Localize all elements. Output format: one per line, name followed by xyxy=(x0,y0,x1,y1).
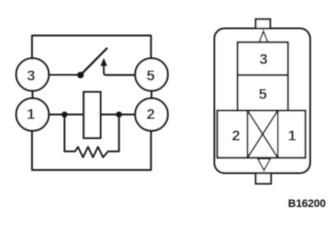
svg-text:3: 3 xyxy=(259,51,267,68)
svg-text:5: 5 xyxy=(259,86,267,103)
relay coil rectangle xyxy=(84,92,101,138)
terminal circle 1 xyxy=(16,98,49,131)
switch pivot junction dot xyxy=(77,72,84,79)
switch blade xyxy=(81,48,107,75)
svg-text:3: 3 xyxy=(27,67,35,84)
switch fixed contact arrow stem and wire to terminal 5 xyxy=(104,64,136,76)
wire stub terminal 3 to terminal 1 xyxy=(32,90,34,99)
connector keying cell with X xyxy=(248,111,278,158)
connector bottom cavity row xyxy=(217,111,305,158)
terminal circle 2 xyxy=(135,98,168,131)
connector cavity box terminal 3 xyxy=(238,42,289,75)
connector cavity box terminal 5 xyxy=(238,75,289,110)
svg-text:1: 1 xyxy=(288,127,296,144)
wire top loop between terminal 3 and terminal 5 xyxy=(32,36,151,60)
wire bottom loop between terminal 1 and terminal 2 xyxy=(32,130,151,170)
connector top index triangle xyxy=(259,31,268,43)
junction dot left of coil xyxy=(62,112,68,118)
svg-text:1: 1 xyxy=(27,106,35,123)
switch fixed contact arrowhead xyxy=(101,59,107,66)
resistor branch wires and zigzag resistor xyxy=(65,115,120,158)
connector bottom index triangle xyxy=(258,159,271,171)
svg-text:2: 2 xyxy=(232,127,240,144)
svg-text:2: 2 xyxy=(147,106,155,123)
connector top mounting tab xyxy=(256,19,271,28)
junction dot right of coil xyxy=(116,112,122,118)
terminal circle 5 xyxy=(135,58,168,91)
connector bottom mounting tab xyxy=(256,173,271,184)
terminal circle 3 xyxy=(16,58,49,91)
wire stub terminal 5 to terminal 2 xyxy=(151,90,153,99)
connector body outline xyxy=(215,29,311,174)
wire terminal 1 to coil xyxy=(49,114,84,116)
wire coil to terminal 2 xyxy=(101,114,136,116)
svg-text:B16200: B16200 xyxy=(288,198,326,210)
wire terminal 3 to switch pivot xyxy=(49,74,79,76)
svg-text:5: 5 xyxy=(147,67,155,84)
